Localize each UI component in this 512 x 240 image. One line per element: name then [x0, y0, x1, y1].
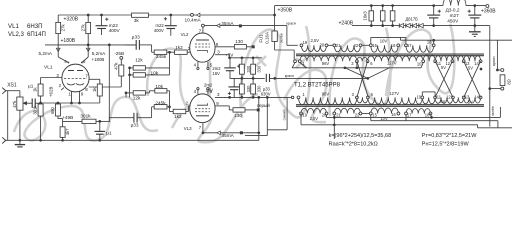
svg-text:5V: 5V: [468, 66, 473, 71]
T2 lowered link 15-17: [370, 114, 372, 121]
svg-text:14: 14: [474, 94, 479, 99]
wire fuse to T1 pin1: [275, 49, 295, 51]
capacitor u33 #2: [109, 117, 134, 119]
T1 bottom winding 3-6: [357, 57, 368, 61]
wire u33#2 to 245k#2: [137, 117, 152, 119]
load resistor 8ohm: [500, 75, 505, 86]
terminal +360V: [486, 5, 489, 8]
capacitor 2m2 #2: [233, 78, 235, 87]
resistor 130 #1: [234, 45, 246, 49]
ground wire bottom: [5, 139, 259, 141]
svg-text:22: 22: [355, 112, 360, 117]
svg-text:47k: 47k: [113, 62, 118, 70]
wire VL2 pin3 +7V: [215, 54, 230, 56]
svg-text:Д817Б: Д817Б: [406, 16, 419, 21]
T1 bottom winding 11-12 5V: [435, 55, 452, 61]
svg-text:22: 22: [354, 43, 359, 48]
wire T1 pin3 stub: [356, 62, 358, 67]
svg-text:Pт=0,83"*2*12,5=21W: Pт=0,83"*2*12,5=21W: [422, 133, 477, 139]
wire X crossing 13-14: [464, 61, 481, 97]
svg-text:2,5V: 2,5V: [310, 116, 319, 121]
capacitor m22 #1: [100, 14, 103, 17]
wire divider drop: [169, 52, 171, 68]
svg-text:27k: 27k: [80, 24, 85, 32]
wire VL1 pin4: [57, 45, 59, 57]
wire diagonal to rail: [345, 68, 368, 79]
svg-text:400V: 400V: [154, 28, 164, 33]
wire to VL3 grid: [186, 111, 189, 113]
ground symbol: [19, 140, 21, 144]
svg-text:10V: 10V: [380, 116, 388, 121]
svg-text:330: 330: [246, 65, 251, 73]
capacitor u33 630V: [265, 74, 267, 82]
svg-text:21: 21: [336, 43, 341, 48]
svg-text:VL1: VL1: [8, 23, 19, 30]
T2 bottom winding 19-20: [301, 108, 327, 113]
svg-text:m27: m27: [450, 13, 460, 18]
T1 top winding 15-16: [371, 45, 398, 52]
svg-text:12k: 12k: [133, 95, 141, 100]
wire VL1 pin8: [89, 86, 122, 88]
svg-text:+240В: +240В: [339, 20, 354, 26]
resistor 16k3 a: [369, 11, 374, 21]
T2 core: [296, 104, 484, 106]
svg-text:Raa=k"*2*8=10,2kΩ: Raa=k"*2*8=10,2kΩ: [329, 142, 378, 148]
svg-text:VL2: VL2: [181, 32, 189, 37]
resistor 330 #3: [240, 84, 245, 94]
ground at PSU: [474, 26, 476, 32]
wire VL1 pin1: [71, 92, 73, 103]
svg-text:245k: 245k: [155, 100, 166, 105]
wire +350V rail: [275, 5, 443, 7]
wire shared mid rail: [230, 77, 265, 79]
current arrow 10,4mA: [191, 13, 194, 16]
wire pot bottom: [19, 110, 21, 140]
T2 bottom winding 21-22: [334, 108, 360, 113]
svg-text:Т1,2 ВТ2Т45РР8: Т1,2 ВТ2Т45РР8: [294, 83, 341, 89]
svg-text:301k: 301k: [33, 105, 38, 115]
T2 top winding 10-11: [422, 97, 435, 103]
wire VL1 pin9: [79, 92, 81, 103]
svg-text:1k2: 1k2: [174, 114, 182, 119]
svg-text:+180В: +180В: [61, 38, 76, 44]
T1 top winding 17-18: [406, 45, 434, 52]
resistor 680: [55, 104, 60, 116]
resistor 1k2 #2: [173, 109, 186, 113]
svg-text:16: 16: [391, 43, 396, 48]
choke D3-0,2: [443, 0, 466, 6]
wire vertical x109 link: [108, 45, 110, 122]
svg-text:12: 12: [446, 94, 451, 99]
T2 top winding 12-13: [453, 97, 464, 102]
capacitor 2m2 #1: [229, 58, 231, 68]
svg-text:зелён: зелён: [491, 106, 495, 116]
svg-text:680: 680: [50, 106, 55, 114]
wire VL1 pin7 to 1k#2: [89, 78, 100, 80]
wire speaker + drop: [496, 40, 498, 70]
zener diodes D817B: [399, 23, 403, 27]
svg-text:+49В: +49В: [62, 115, 73, 120]
resistor 245k #1: [154, 50, 167, 54]
current arrow 5,2mA #1: [56, 48, 60, 51]
svg-text:16V: 16V: [206, 87, 214, 92]
heater pin 5 VL2: [207, 62, 209, 67]
heater pin 4 VL2: [197, 62, 199, 67]
svg-text:5V: 5V: [440, 99, 445, 104]
capacitor m27 #2: [473, 4, 476, 7]
svg-text:+320В: +320В: [64, 17, 79, 23]
svg-text:400V: 400V: [109, 28, 121, 33]
svg-text:96V: 96V: [322, 61, 330, 66]
svg-text:5,2mA: 5,2mA: [92, 51, 106, 56]
svg-text:130: 130: [235, 39, 243, 44]
heater pin 4 VL3: [197, 90, 199, 94]
terminal -25V: [120, 56, 123, 59]
T1 top winding 21-22: [334, 45, 360, 52]
svg-text:96V: 96V: [322, 92, 330, 97]
resistor 16k3 b: [380, 11, 385, 21]
wire VL3 pin7: [202, 123, 204, 133]
svg-text:10: 10: [417, 94, 422, 99]
fuse FU1: [274, 15, 276, 50]
T1 core: [296, 53, 484, 55]
resistor 10k #1: [133, 73, 145, 77]
wire VL3 pin9 anode-load: [215, 105, 229, 107]
svg-text:330: 330: [246, 85, 251, 93]
resistor 301k #1: [38, 104, 43, 116]
T1 bottom winding 13-14 5V: [464, 56, 481, 62]
resistor 12k #1: [133, 66, 145, 70]
T2 top winding 1-3: [299, 97, 357, 104]
svg-text:1k2: 1k2: [175, 45, 183, 50]
wire T2 pin1 lead: [287, 96, 291, 98]
wire VL2 cathode rail top: [230, 57, 262, 59]
svg-text:красн: красн: [492, 56, 496, 66]
svg-text:серый: серый: [257, 102, 270, 108]
resistor 301k #2: [82, 119, 96, 123]
resistor 10k #2: [155, 89, 167, 93]
T1 link 22-15: [361, 44, 371, 46]
terminal speaker +: [501, 69, 504, 72]
capacitor m22 #2: [169, 14, 172, 17]
svg-text:5V: 5V: [468, 100, 473, 105]
svg-text:зелён: зелён: [280, 33, 284, 43]
resistor 1k2 #1: [175, 50, 188, 54]
resistor 47k bias: [120, 59, 122, 65]
svg-text:1k: 1k: [33, 87, 38, 92]
wire bottom bus y124.8: [301, 124, 478, 126]
svg-text:8Ω: 8Ω: [506, 79, 511, 84]
svg-text:17: 17: [407, 43, 412, 48]
T1 top terminals: [300, 44, 303, 47]
T2 bottom winding 15-16: [371, 108, 399, 114]
wire feedback loop left vertical: [258, 97, 260, 140]
svg-text:0,16A: 0,16A: [265, 32, 270, 44]
svg-text:красн: красн: [286, 21, 296, 25]
wire X crossing 11-12: [435, 61, 453, 97]
svg-text:301k: 301k: [80, 113, 91, 118]
heater pin 5 VL3: [207, 90, 209, 94]
svg-text:+360В: +360В: [481, 9, 496, 15]
wire 680 to 4k7: [57, 116, 59, 119]
svg-text:XS1: XS1: [7, 83, 17, 89]
svg-text:+180В: +180В: [92, 57, 105, 62]
resistor 27k #1: [56, 22, 61, 33]
wire +180V / coupling: [45, 44, 136, 46]
T2 top winding 13-14 5V: [464, 97, 481, 103]
gray loop inner vertical: [266, 97, 268, 135]
wire 130#2 to pad: [245, 109, 257, 111]
T2 top winding 11-12 5V: [435, 97, 453, 103]
svg-text:16: 16: [391, 112, 396, 117]
T2 raised link 10-11: [421, 92, 423, 98]
svg-text:27k: 27k: [61, 24, 66, 32]
resistor 330 #1: [240, 64, 245, 74]
svg-text:20: 20: [322, 112, 327, 117]
wire VL2 pin9 anode-load: [215, 46, 235, 48]
svg-text:127V: 127V: [389, 91, 399, 96]
current arrow 5,2mA #2: [86, 48, 90, 51]
svg-text:FU1: FU1: [259, 34, 264, 43]
wire VL2 pin7 anode: [202, 27, 204, 33]
wire right PSU drop: [489, 26, 491, 127]
wire VL1 pin6: [87, 45, 89, 57]
svg-text:10V: 10V: [380, 38, 388, 43]
wire 130#1 to pad: [246, 46, 251, 48]
wire lowered bus extension: [406, 120, 498, 122]
wire heater bus y117.4: [327, 116, 501, 118]
capacitor u1 #2: [99, 121, 101, 131]
svg-text:12k: 12k: [135, 58, 143, 63]
wire +240V rail: [352, 25, 490, 27]
T1 link 20-21: [327, 44, 335, 46]
tube VL1: [62, 64, 89, 92]
svg-text:19: 19: [303, 112, 308, 117]
svg-text:630V: 630V: [261, 92, 271, 97]
wire VL3 pin3 rail: [215, 96, 287, 98]
svg-text:+62В: +62В: [48, 87, 53, 97]
wire VL1 pin3 grid: [41, 77, 63, 79]
svg-text:35mA: 35mA: [221, 21, 234, 26]
T2 top winding 127V: [368, 97, 422, 104]
svg-text:Pн=12,5"*2/8=19W: Pн=12,5"*2/8=19W: [422, 142, 470, 148]
wire speaker - link: [490, 88, 501, 90]
resistor 1k #2: [97, 84, 102, 96]
svg-text:2,5V: 2,5V: [311, 38, 320, 43]
T2 top terminals: [297, 96, 300, 99]
svg-text:синий: синий: [282, 109, 287, 120]
T2 top winding 3-6: [357, 97, 368, 103]
wire 35mA #2: [203, 132, 259, 134]
svg-text:10,4mA: 10,4mA: [185, 18, 202, 23]
resistor 12k #2: [133, 91, 145, 95]
T2 link 22-15: [361, 113, 371, 115]
svg-text:3k: 3k: [134, 18, 140, 23]
tube VL2: [190, 33, 215, 62]
svg-text:VL3: VL3: [184, 126, 192, 131]
svg-text:-25В: -25В: [114, 51, 124, 56]
wire 245k-1k2 node: [167, 51, 175, 53]
resistor 130 #2: [233, 108, 245, 112]
wire VL1 pin2: [61, 88, 64, 90]
wire to T1 red lead: [286, 26, 288, 46]
tube VL3: [190, 94, 215, 123]
svg-text:10: 10: [417, 61, 422, 66]
node +350V corner: [274, 6, 276, 15]
resistor 1k #1: [38, 84, 43, 96]
wire 10k#2 drop: [169, 91, 171, 112]
T2 U-link 20-21: [326, 114, 328, 118]
svg-text:16V: 16V: [212, 71, 220, 76]
resistor 27k #2: [86, 22, 91, 33]
wire to VL2 grid: [187, 51, 190, 53]
svg-text:µ1: µ1: [106, 131, 112, 136]
wire T1 pin1 slants: [292, 62, 295, 67]
T1 bottom winding 12-13: [452, 56, 463, 62]
wire T1 interlink y67.6: [292, 67, 421, 69]
svg-text:k=(96*2+254)/12,5=35,68: k=(96*2+254)/12,5=35,68: [329, 133, 392, 139]
resistor 330 #2: [251, 64, 256, 74]
svg-text:10k: 10k: [155, 84, 163, 89]
svg-text:6Н3П: 6Н3П: [27, 23, 43, 30]
resistor 330 #4: [251, 84, 256, 94]
T1 top winding 19-20: [301, 45, 326, 51]
svg-text:47k: 47k: [12, 100, 17, 108]
svg-text:450V: 450V: [447, 19, 459, 24]
wire NFB row: [63, 120, 82, 122]
T2 bottom terminals: [300, 112, 303, 115]
svg-text:VL2,3: VL2,3: [8, 31, 25, 38]
wire 35mA screen rail: [204, 25, 239, 27]
svg-text:6П14П: 6П14П: [27, 31, 46, 38]
svg-text:17: 17: [407, 113, 412, 118]
wire 12k#2 left drop: [125, 93, 127, 98]
resistor 16k3 c: [390, 11, 395, 21]
svg-text:18: 18: [425, 112, 430, 117]
resistor 4k7: [60, 127, 65, 138]
gray loop bottom link: [267, 129, 287, 131]
svg-text:VL1: VL1: [44, 64, 53, 70]
resistor 3k: [132, 13, 149, 17]
wire cathode node VL1: [40, 96, 42, 104]
T1 bottom terminals: [294, 60, 297, 63]
svg-text:330: 330: [257, 85, 262, 93]
svg-text:130: 130: [234, 113, 242, 118]
resistor 245k #2: [154, 105, 167, 109]
svg-text:15: 15: [372, 113, 377, 118]
capacitor m27 #1: [432, 4, 435, 7]
T1 bottom winding 127V: [368, 56, 424, 61]
svg-text:5V: 5V: [441, 65, 446, 70]
svg-text:+350В: +350В: [278, 7, 293, 13]
svg-text:15: 15: [372, 43, 377, 48]
T1 raised link 15-17: [370, 37, 372, 45]
wire sec out top y40: [400, 39, 512, 41]
T1 bottom winding 1-3: [300, 56, 357, 61]
svg-text:10k: 10k: [151, 71, 159, 76]
wire 301k#2 to u1#2: [96, 120, 110, 122]
capacitor u1 input: [27, 102, 32, 104]
svg-text:Д3-0,2: Д3-0,2: [446, 8, 460, 13]
svg-text:19: 19: [303, 40, 308, 45]
wire X crossing 3-6 left: [357, 61, 368, 97]
svg-text:127V: 127V: [387, 61, 397, 66]
T1 bottom winding 10-11: [423, 55, 435, 61]
svg-text:245k: 245k: [156, 54, 167, 59]
svg-text:330: 330: [257, 65, 262, 73]
svg-text:4k7: 4k7: [65, 128, 70, 135]
svg-text:21: 21: [336, 113, 341, 118]
svg-text:µ33: µ33: [132, 35, 140, 40]
T2 bottom winding 17-18: [406, 109, 431, 114]
svg-text:16к3: 16к3: [363, 11, 368, 21]
terminal speaker -: [501, 87, 504, 90]
svg-text:12: 12: [446, 61, 451, 66]
capacitor u33 #1: [125, 44, 136, 46]
svg-text:5,2mA: 5,2mA: [39, 51, 53, 56]
svg-text:красн: красн: [285, 74, 294, 78]
wire +320V rail: [58, 14, 274, 16]
wire divider left drop: [129, 68, 131, 98]
svg-text:20: 20: [320, 43, 325, 48]
svg-text:1k: 1k: [92, 87, 97, 92]
potentiometer 47k: [17, 97, 23, 110]
svg-text:µ33: µ33: [131, 122, 139, 127]
svg-text:35mA: 35mA: [222, 133, 235, 138]
wire u33#1 to 245k: [139, 44, 151, 46]
